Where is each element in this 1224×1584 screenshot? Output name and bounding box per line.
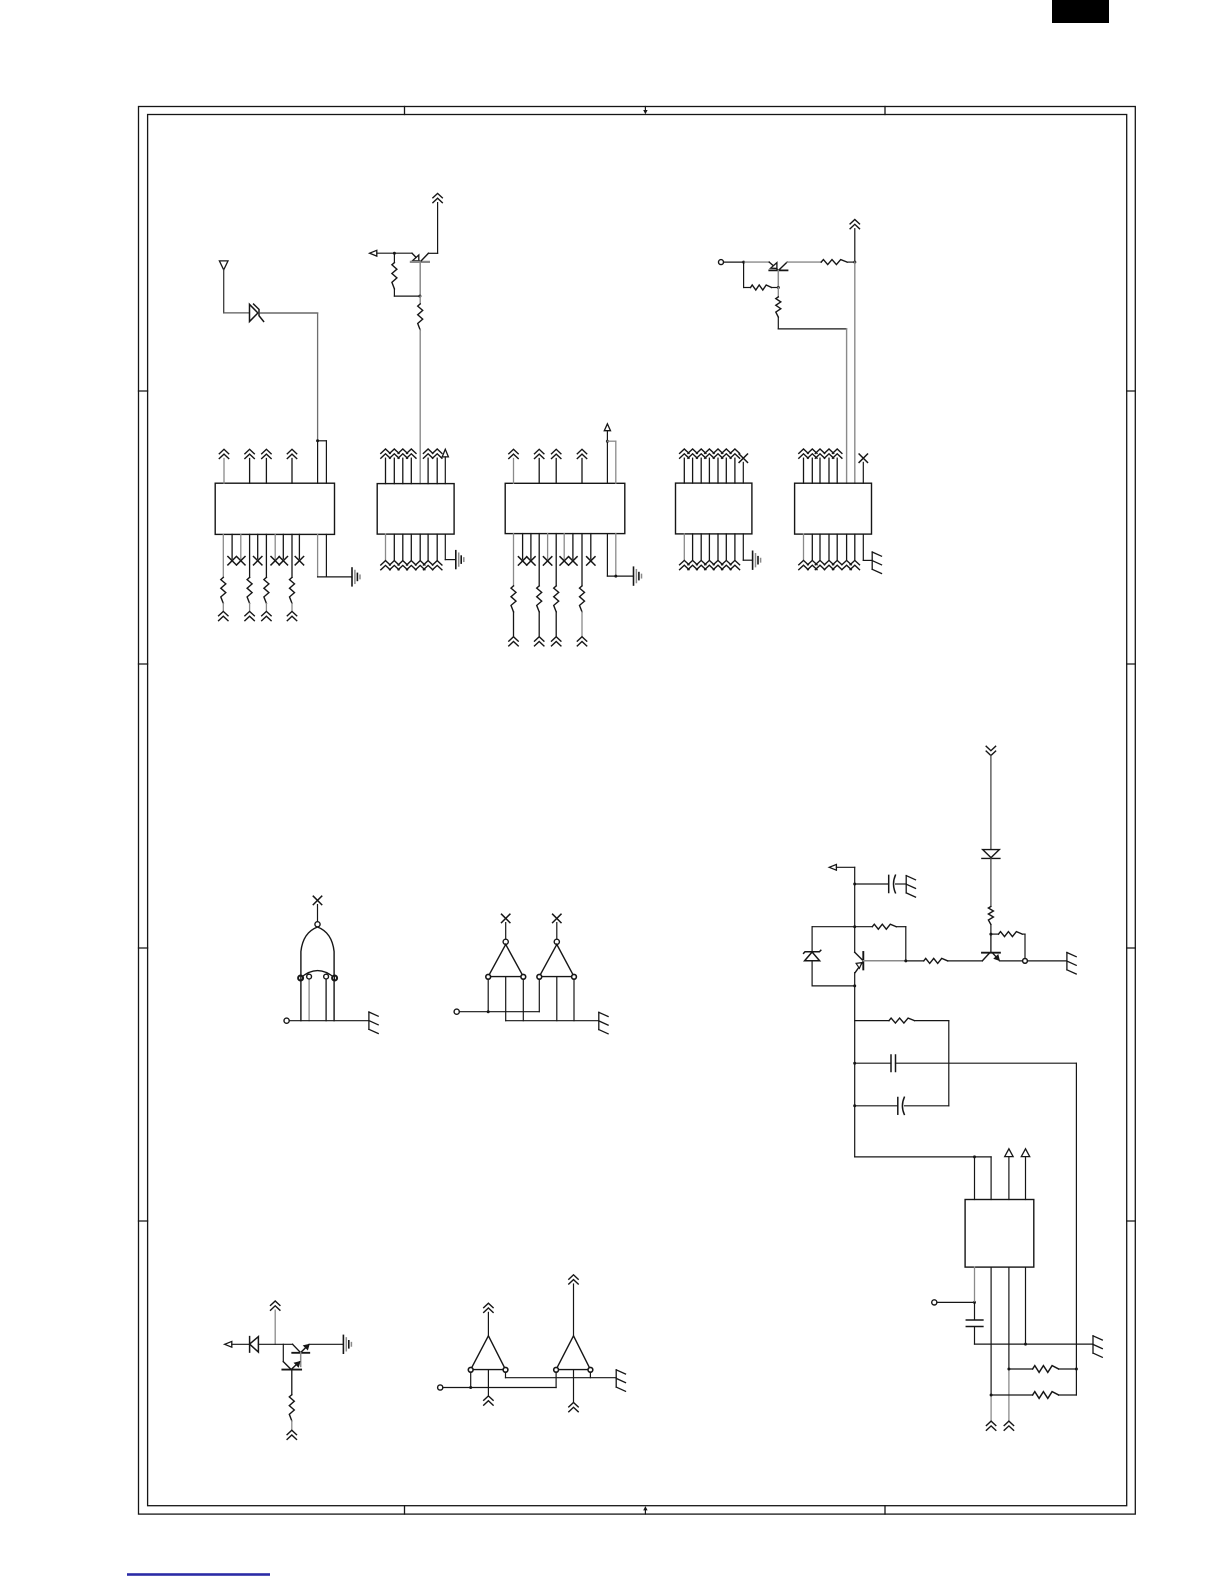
- off-page connector U4 top pin 4: [705, 449, 714, 458]
- wire A1 centre lead: [505, 977, 507, 1021]
- wire U4 bottom pin 8 to ground: [742, 534, 744, 560]
- wire R5 to U5 pin6: [778, 328, 846, 330]
- wire U1 bottom pin to ground right: [325, 534, 327, 577]
- wire junction to C1: [855, 883, 889, 885]
- wire D1 cathode to corner: [259, 312, 317, 314]
- wire loop top: [812, 926, 855, 928]
- wire C1 to chassis ground: [896, 883, 907, 885]
- wire arrow to Q1: [377, 252, 412, 254]
- wire base line to R10: [906, 960, 924, 962]
- wire x to resonator top: [317, 905, 319, 922]
- off-page connector below R12: [245, 611, 254, 620]
- node Q2 input junction: [742, 261, 745, 264]
- node U6 pin1 bottom junction: [973, 1301, 976, 1304]
- wire U1 top jumper: [318, 440, 327, 442]
- wire Q6 collector drop: [282, 1344, 284, 1361]
- wire VCC to U5 pin7: [854, 262, 856, 483]
- wire Q5 emitter to ground: [309, 1343, 343, 1345]
- node zener loop top junction: [853, 925, 856, 928]
- wire right tall drop: [1075, 1063, 1077, 1395]
- resistor R13: [991, 1394, 1033, 1396]
- wire antenna down: [223, 270, 225, 313]
- off-page connector U5 bottom pin 5: [836, 534, 838, 560]
- wire U3 top jumper: [607, 440, 615, 442]
- IC U6: [965, 1200, 1034, 1268]
- wire B1 left lead: [470, 1372, 472, 1387]
- wire A2 left lead: [538, 979, 540, 1012]
- off-page connector below R14: [287, 611, 296, 620]
- off-page connector VCC above Q1: [433, 193, 442, 202]
- wire loop left upper: [811, 927, 813, 952]
- wire R10 to Q4: [948, 960, 983, 962]
- wire chevron to Q5 rail: [274, 1310, 276, 1344]
- ground U4: [753, 551, 761, 569]
- wire arrow to main rail: [836, 866, 854, 868]
- wire B ground bus: [506, 1377, 617, 1379]
- wire U3 bottom pin to ground left: [606, 534, 608, 577]
- wire chevron to B1 apex: [487, 1312, 489, 1335]
- transistor Q2: [769, 262, 787, 288]
- wire RC bottom branch right: [905, 1105, 949, 1107]
- wire R2 to U2 pin5: [419, 330, 421, 484]
- node U3 ground junction: [614, 575, 617, 578]
- wire resonator pin 2: [308, 979, 310, 1021]
- off-page connector U4 bottom pin 4: [708, 534, 710, 561]
- ground U3: [634, 567, 642, 585]
- wire U3 bottom pin to ground right: [615, 534, 617, 577]
- off-page connector U5 top pin 1: [799, 449, 808, 458]
- wire x to buffer A1: [505, 923, 507, 940]
- resistor R10: [924, 958, 948, 963]
- buffer B2 base lead circles: [554, 1367, 559, 1372]
- off-page connector U1 top pin 1: [219, 449, 228, 458]
- resistor R11 below U1: [222, 534, 224, 577]
- off-page connector U3 top pin 4: [577, 449, 586, 458]
- zener diode ZD1: [804, 950, 821, 960]
- wire resonator ground bus: [289, 1020, 369, 1022]
- off-page connector below R13: [262, 611, 271, 620]
- buffer A1 base lead circles: [486, 974, 491, 979]
- off-page connector U4 top pin 6: [722, 449, 731, 458]
- capacitor C2: [891, 1055, 896, 1072]
- off-page connector U3 top pin 3: [552, 449, 561, 458]
- wire U1 top pin 5: [317, 441, 319, 483]
- resistor R2: [419, 296, 421, 304]
- wire U6 bottom pin 4: [1025, 1267, 1027, 1344]
- off-page connector U2 bottom pin 5: [419, 534, 421, 561]
- ground buffers chassis: [599, 1012, 608, 1034]
- off-page arrow U3 top right: [604, 424, 610, 431]
- off-page connector below R33: [552, 637, 561, 646]
- off-page connector U2 top pin 4: [407, 449, 416, 458]
- wire U3 ground run: [607, 575, 633, 577]
- resistor R12: [1009, 1368, 1033, 1370]
- buffer triangle B1: [471, 1336, 506, 1370]
- no-connect pin U1 bottom x3: [257, 534, 259, 558]
- no-connect pin U3 bottom x6: [590, 534, 592, 559]
- diode D1: [250, 304, 264, 321]
- wire B1 centre lead: [487, 1370, 489, 1396]
- wire U1 ground run: [318, 576, 352, 578]
- border zone ticks left edge: [139, 391, 148, 1221]
- terminal buffers input: [454, 1009, 459, 1014]
- off-page connector U4 bottom pin 5: [717, 534, 719, 561]
- no-connect above resonator: [313, 896, 321, 904]
- wire buffers ground bus: [506, 1020, 599, 1022]
- wire A1 left lead: [487, 979, 489, 1012]
- terminal resonator bottom left: [284, 1018, 289, 1023]
- ground U6 chassis: [1093, 1336, 1102, 1358]
- resistor R12 below U1: [249, 534, 251, 577]
- no-connect pin U3 bottom x3: [547, 534, 549, 559]
- terminal buffer A1 apex: [503, 939, 508, 944]
- wire A2 centre lead: [556, 977, 558, 1021]
- wire D2 to R7: [990, 858, 992, 905]
- wire resonator sides over circles: [300, 976, 302, 981]
- wire R8 drop to emitter node: [1024, 934, 1026, 958]
- wire U6 top pin 1: [974, 1157, 976, 1200]
- off-page connector below R31: [509, 637, 518, 646]
- off-page connector U4 bottom pin 7: [734, 534, 736, 561]
- off-page arrow left at main rail: [829, 864, 836, 870]
- border outer frame: [139, 107, 1136, 1515]
- wire R9 drop to base line: [905, 927, 907, 961]
- center alignment arrow top: [643, 107, 647, 115]
- off-page connector VCC right: [850, 220, 859, 229]
- IC U1: [215, 483, 334, 534]
- resistor R31 below U3: [513, 534, 515, 586]
- no-connect U4 top pin 8: [739, 454, 747, 462]
- node R12 right junction: [1075, 1368, 1078, 1371]
- transistor Q5: [292, 1344, 309, 1366]
- off-page connector above Q5: [271, 1301, 280, 1310]
- node R7 bottom junction: [989, 933, 992, 936]
- off-page connector U4 top pin 7: [730, 449, 739, 458]
- off-page connector U5 top pin 4: [824, 449, 833, 458]
- wire Q4 emitter to terminal: [1000, 960, 1023, 962]
- ground Q4 chassis: [1067, 953, 1076, 975]
- wire loop bottom: [812, 985, 855, 987]
- off-page connector U1 top pin 4: [287, 449, 296, 458]
- border zone tick top-left: [404, 107, 406, 115]
- diode D3: [250, 1337, 259, 1353]
- node capacitor branch junction: [853, 883, 856, 886]
- no-connect pin U1 bottom x1: [231, 534, 233, 558]
- off-page connector U2 top pin 7: [433, 449, 442, 458]
- ground Q5: [343, 1335, 351, 1353]
- wire x to buffer A2: [556, 923, 558, 940]
- wire U6 bottom pin 2: [990, 1267, 992, 1395]
- node VCC junction: [853, 261, 856, 264]
- page tab marker top right: [1052, 0, 1109, 23]
- border inner frame: [148, 115, 1127, 1506]
- center alignment arrow bottom: [643, 1506, 647, 1514]
- off-page connector U5 bottom pin 4: [828, 534, 830, 560]
- off-page connector U4 bottom pin 6: [725, 534, 727, 561]
- wire loop left lower: [811, 961, 813, 986]
- resistor R1: [393, 253, 395, 262]
- off-page connector U5 bottom pin 7: [854, 534, 856, 560]
- no-connect above buffer A2: [553, 914, 561, 922]
- IC U3: [505, 483, 625, 533]
- resistor R5: [777, 288, 779, 297]
- wire corner down to U1: [317, 313, 319, 441]
- IC U2: [377, 484, 454, 534]
- wire B2 right lead: [589, 1372, 591, 1378]
- resistor R34 below U3: [581, 534, 583, 586]
- resistor R9: [855, 926, 873, 928]
- node loop bottom junction: [853, 984, 856, 987]
- off-page arrow Q5 output: [225, 1341, 232, 1347]
- buffer B1 base lead circles: [468, 1367, 473, 1372]
- wire C4 to ground bus: [974, 1327, 976, 1344]
- wire U6 bottom pin 1: [974, 1267, 976, 1302]
- off-page connector U5 top pin 5: [833, 449, 842, 458]
- off-page connector U4 bottom pin 1: [683, 534, 685, 561]
- wire D3 to Q5: [258, 1343, 292, 1345]
- wire U6 top pin 2: [990, 1157, 992, 1200]
- off-page connector below R34: [577, 637, 586, 646]
- off-page connector U2 top pin 1: [381, 449, 390, 458]
- off-page connector U5 bottom pin 2: [811, 534, 813, 560]
- off-page connector above B1: [484, 1303, 493, 1312]
- capacitor C4: [966, 1320, 983, 1327]
- wire resonator pin 3: [325, 979, 327, 1021]
- no-connect pin U3 bottom x1: [522, 534, 524, 559]
- terminal buffers B input: [438, 1385, 443, 1390]
- resistor R14 below U1: [291, 534, 293, 577]
- off-page connector U5 bottom pin 3: [819, 534, 821, 560]
- resistor R3: [743, 262, 745, 287]
- node RC mid junction: [853, 1062, 856, 1065]
- node Q3 base junction: [904, 959, 907, 962]
- wire chevron to diode D2: [990, 756, 992, 850]
- wire U6 bottom pin 3: [1008, 1267, 1010, 1369]
- capacitor C3: [898, 1097, 905, 1114]
- wire Q2 collector to R4: [787, 261, 821, 263]
- resonator inner arc: [301, 971, 335, 978]
- off-page connector U4 bottom pin 3: [700, 534, 702, 561]
- wire R1 bottom to base node: [394, 295, 420, 297]
- wire U2 bottom pin 8 to ground: [444, 534, 446, 560]
- border zone tick bottom-left: [404, 1506, 406, 1514]
- off-page connector U4 top pin 3: [697, 449, 706, 458]
- wire chevron to B2 apex: [573, 1284, 575, 1336]
- node pin4 ground junction: [1024, 1343, 1027, 1346]
- resistor R33 below U3: [555, 534, 557, 586]
- off-page connector below B2: [569, 1403, 578, 1412]
- wire U5 bottom pin 8 to ground: [862, 534, 864, 560]
- off-page connector U5 bottom pin 6: [846, 534, 848, 560]
- wire terminal to junction: [724, 261, 744, 263]
- wire terminal to chassis ground: [1027, 960, 1067, 962]
- wire VCC riser: [437, 203, 439, 254]
- off-page connector U5 top pin 2: [808, 449, 817, 458]
- wire junction to Q2 emitter: [744, 261, 770, 263]
- wire main rail Q3 emitter down: [854, 973, 856, 1157]
- off-page connector U5 bottom pin 1: [803, 534, 805, 560]
- wire U1 jumper junction: [316, 439, 319, 442]
- wire U1 bottom pin to ground left: [317, 534, 319, 577]
- no-connect above buffer A1: [502, 914, 510, 922]
- off-page connector U2 top pin 2: [390, 449, 399, 458]
- no-connect U5 top pin 8: [859, 454, 867, 462]
- resistor R6: [289, 1395, 294, 1421]
- wire ground bus: [975, 1343, 1094, 1345]
- ground C1 chassis: [906, 876, 915, 898]
- wire B input bus: [443, 1387, 556, 1389]
- ground buffers B chassis: [616, 1370, 625, 1392]
- buffer A2 base lead circles: [537, 974, 542, 979]
- node U6 pin1 junction: [973, 1155, 976, 1158]
- off-page connector below R11: [219, 611, 228, 620]
- transistor Q1: [411, 253, 429, 296]
- wire Q1 collector to VCC riser: [428, 252, 437, 254]
- terminal U6 left: [932, 1300, 937, 1305]
- buffer triangle A2: [539, 944, 574, 976]
- resistor R7: [988, 907, 993, 925]
- transistor Q4: [982, 934, 1000, 961]
- off-page connector U1 top pin 2: [245, 449, 254, 458]
- off-page connector U2 bottom pin 2: [393, 534, 395, 561]
- off-page connector U3 top pin 2: [535, 449, 544, 458]
- node pin3 resistor junction: [1007, 1368, 1010, 1371]
- wire antenna to diode: [224, 312, 250, 314]
- node Q2 base junction: [777, 286, 780, 289]
- wire terminal to pin1 lead: [937, 1301, 975, 1303]
- off-page arrow Q1 output: [370, 250, 377, 256]
- capacitor C1: [889, 875, 896, 893]
- wire B1 right lead: [505, 1372, 507, 1378]
- off-page connector U2 top pin 6: [423, 449, 432, 458]
- wire arrow to diode D3: [232, 1343, 249, 1345]
- no-connect pin U1 bottom x4: [274, 534, 276, 558]
- off-page connector U5 top pin 3: [815, 449, 824, 458]
- transistor Q3: [855, 952, 906, 973]
- wire RC mid branch right long: [896, 1062, 1077, 1064]
- off-page connector U4 top pin 1: [680, 449, 689, 458]
- resistor R11: [889, 1018, 915, 1023]
- buffer triangle A1: [488, 944, 523, 976]
- resonator lead circles: [298, 976, 303, 981]
- ground resonator chassis: [369, 1012, 378, 1034]
- antenna terminal: [219, 261, 228, 270]
- off-page connector U2 bottom pin 4: [410, 534, 412, 561]
- wire buffers input bus: [459, 1011, 539, 1013]
- wire A2 right lead: [573, 979, 575, 1021]
- terminal resonator top: [315, 922, 320, 927]
- no-connect pin U1 bottom x5: [282, 534, 284, 558]
- off-page arrow U6 top pin 4: [1021, 1149, 1029, 1157]
- wire B2 left lead: [555, 1372, 557, 1387]
- node U3 jumper junction: [606, 440, 609, 443]
- no-connect pin U3 bottom x4: [563, 534, 565, 559]
- node Q1 base lower junction: [418, 295, 421, 298]
- wire A1 right lead: [522, 979, 524, 1021]
- IC U4: [676, 483, 752, 534]
- node buffers input junction: [487, 1010, 490, 1013]
- no-connect pin U3 bottom x5: [572, 534, 574, 559]
- wire RC bottom branch left: [855, 1105, 898, 1107]
- ground U2: [456, 551, 464, 569]
- border zone tick top-right: [884, 107, 886, 115]
- no-connect pin U3 bottom x2: [530, 534, 532, 559]
- wire RC top branch: [855, 1020, 889, 1022]
- off-page arrow U6 top pin 3: [1005, 1149, 1013, 1157]
- buffer triangle B2: [556, 1336, 590, 1370]
- terminal on emitter line: [1023, 959, 1028, 964]
- resistor R8: [991, 933, 999, 935]
- off-page arrow U2 top pin 8: [442, 449, 448, 457]
- off-page connector U2 bottom pin 1: [385, 534, 387, 561]
- node B input junction: [469, 1386, 472, 1389]
- ground U5 chassis: [872, 552, 881, 574]
- no-connect pin U1 bottom x2: [240, 534, 242, 558]
- IC U5: [795, 483, 872, 534]
- resistor R32 below U3: [538, 534, 540, 586]
- off-page connector U3 top pin 1: [509, 449, 518, 458]
- off-page connector below B1: [484, 1396, 493, 1405]
- off-page connector below R32: [535, 637, 544, 646]
- resistor R4: [821, 260, 847, 265]
- off-page connector U4 bottom pin 2: [692, 534, 694, 561]
- off-page connector below U6 pin 3: [1004, 1421, 1013, 1430]
- wire RC mid branch left: [855, 1062, 891, 1064]
- off-page connector below U6 pin 2: [986, 1421, 995, 1430]
- no-connect pin U1 bottom x6: [298, 534, 300, 558]
- off-page connector U2 bottom pin 3: [402, 534, 404, 561]
- off-page connector below R6: [287, 1430, 296, 1439]
- off-page connector top right pointing down: [986, 746, 995, 755]
- transistor Q6: [282, 1362, 301, 1395]
- wire main rail bottom corner: [855, 1156, 991, 1158]
- off-page connector U2 bottom pin 6: [427, 534, 429, 561]
- resonator dome: [301, 927, 334, 1021]
- node RC bottom junction: [853, 1104, 856, 1107]
- ground U1: [352, 568, 360, 586]
- wire B2 centre lead: [573, 1370, 575, 1403]
- wire U1 top pin 6: [325, 441, 327, 483]
- border zone tick bottom-right: [884, 1506, 886, 1514]
- terminal Q2 input: [719, 260, 724, 265]
- diode D2: [982, 850, 1000, 859]
- node pin2 resistor junction: [990, 1394, 993, 1397]
- wire main rail upper: [854, 867, 856, 952]
- wire RC right vertical: [948, 1021, 950, 1106]
- wire VCC chevron down: [854, 229, 856, 262]
- blue footer link underline: [127, 1573, 270, 1576]
- off-page connector above B2: [569, 1275, 578, 1284]
- wire U3 top pin 6: [615, 441, 617, 483]
- off-page connector U2 top pin 3: [398, 449, 407, 458]
- border zone ticks right edge: [1127, 391, 1136, 1221]
- off-page connector U1 top pin 3: [262, 449, 271, 458]
- terminal buffer A2 apex: [554, 939, 559, 944]
- off-page connector U4 top pin 5: [713, 449, 722, 458]
- off-page connector U4 top pin 2: [688, 449, 697, 458]
- off-page connector U2 bottom pin 7: [436, 534, 438, 561]
- node Q1 base-resistor junction: [393, 252, 396, 255]
- resistor R13 below U1: [265, 534, 267, 577]
